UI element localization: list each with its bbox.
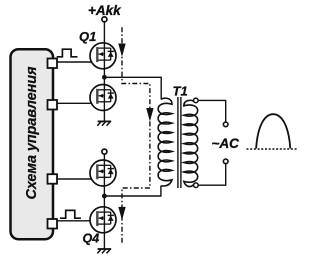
svg-text:~AC: ~AC [212,136,240,151]
node A junction dot [102,75,107,80]
ground under Q2 [97,121,111,125]
wire +Akk to Q1 drain [103,23,105,44]
wire Q1 source to Q2 drain [103,68,105,85]
ground under Q4 [97,249,111,253]
transformer T1 secondary winding [184,100,198,186]
wire secondary top to output [198,100,226,121]
wire Q4 source to ground [103,232,105,249]
pulse glyph top [57,49,78,57]
output terminal top [223,122,228,127]
wire gate drive 4 [52,220,97,222]
wire node B to transformer primary bottom [104,186,160,196]
pin square 3 [48,174,58,184]
output terminal bottom [223,159,228,164]
secondary terminal bottom [194,183,199,188]
current arrow 3 [118,207,125,220]
wire gate drive 1 [52,61,97,63]
pin square 4 [48,219,58,229]
wire Q2 source to ground [103,110,105,121]
control box (Схема управления) [11,49,54,239]
transistor Q2 [90,85,116,111]
transformer T1 primary winding [158,98,172,186]
current path dash-dot [122,27,150,243]
wire gate drive 2 [52,102,97,104]
svg-text:Q4: Q4 [83,231,100,245]
transformer core [177,97,179,188]
pin square 1 [48,59,58,69]
svg-text:Q1: Q1 [79,29,96,44]
transistor Q4 [90,207,116,233]
wire node A to transformer primary top [104,77,161,99]
wire Q3 source to Q4 drain [103,186,105,208]
terminal mid supply [102,149,107,154]
terminal +Akk [102,17,107,22]
svg-text:Схема управления: Схема управления [24,66,40,199]
wire secondary bottom to output [198,164,226,185]
svg-text:+Akk: +Akk [88,3,122,18]
current arrow 1 [118,44,125,57]
wire terminal to Q3 drain [103,154,105,160]
output waveform baseline [247,148,298,150]
current arrow 2 [146,108,153,122]
svg-text:T1: T1 [173,84,188,99]
pulse glyph bottom [60,210,81,218]
output waveform half-sine [256,114,290,148]
node B junction dot [102,194,107,199]
secondary terminal top [194,98,199,103]
wire gate drive 3 [52,178,97,180]
transistor Q3 [90,160,116,186]
transistor Q1 [90,43,116,69]
pin square 2 [48,100,58,110]
